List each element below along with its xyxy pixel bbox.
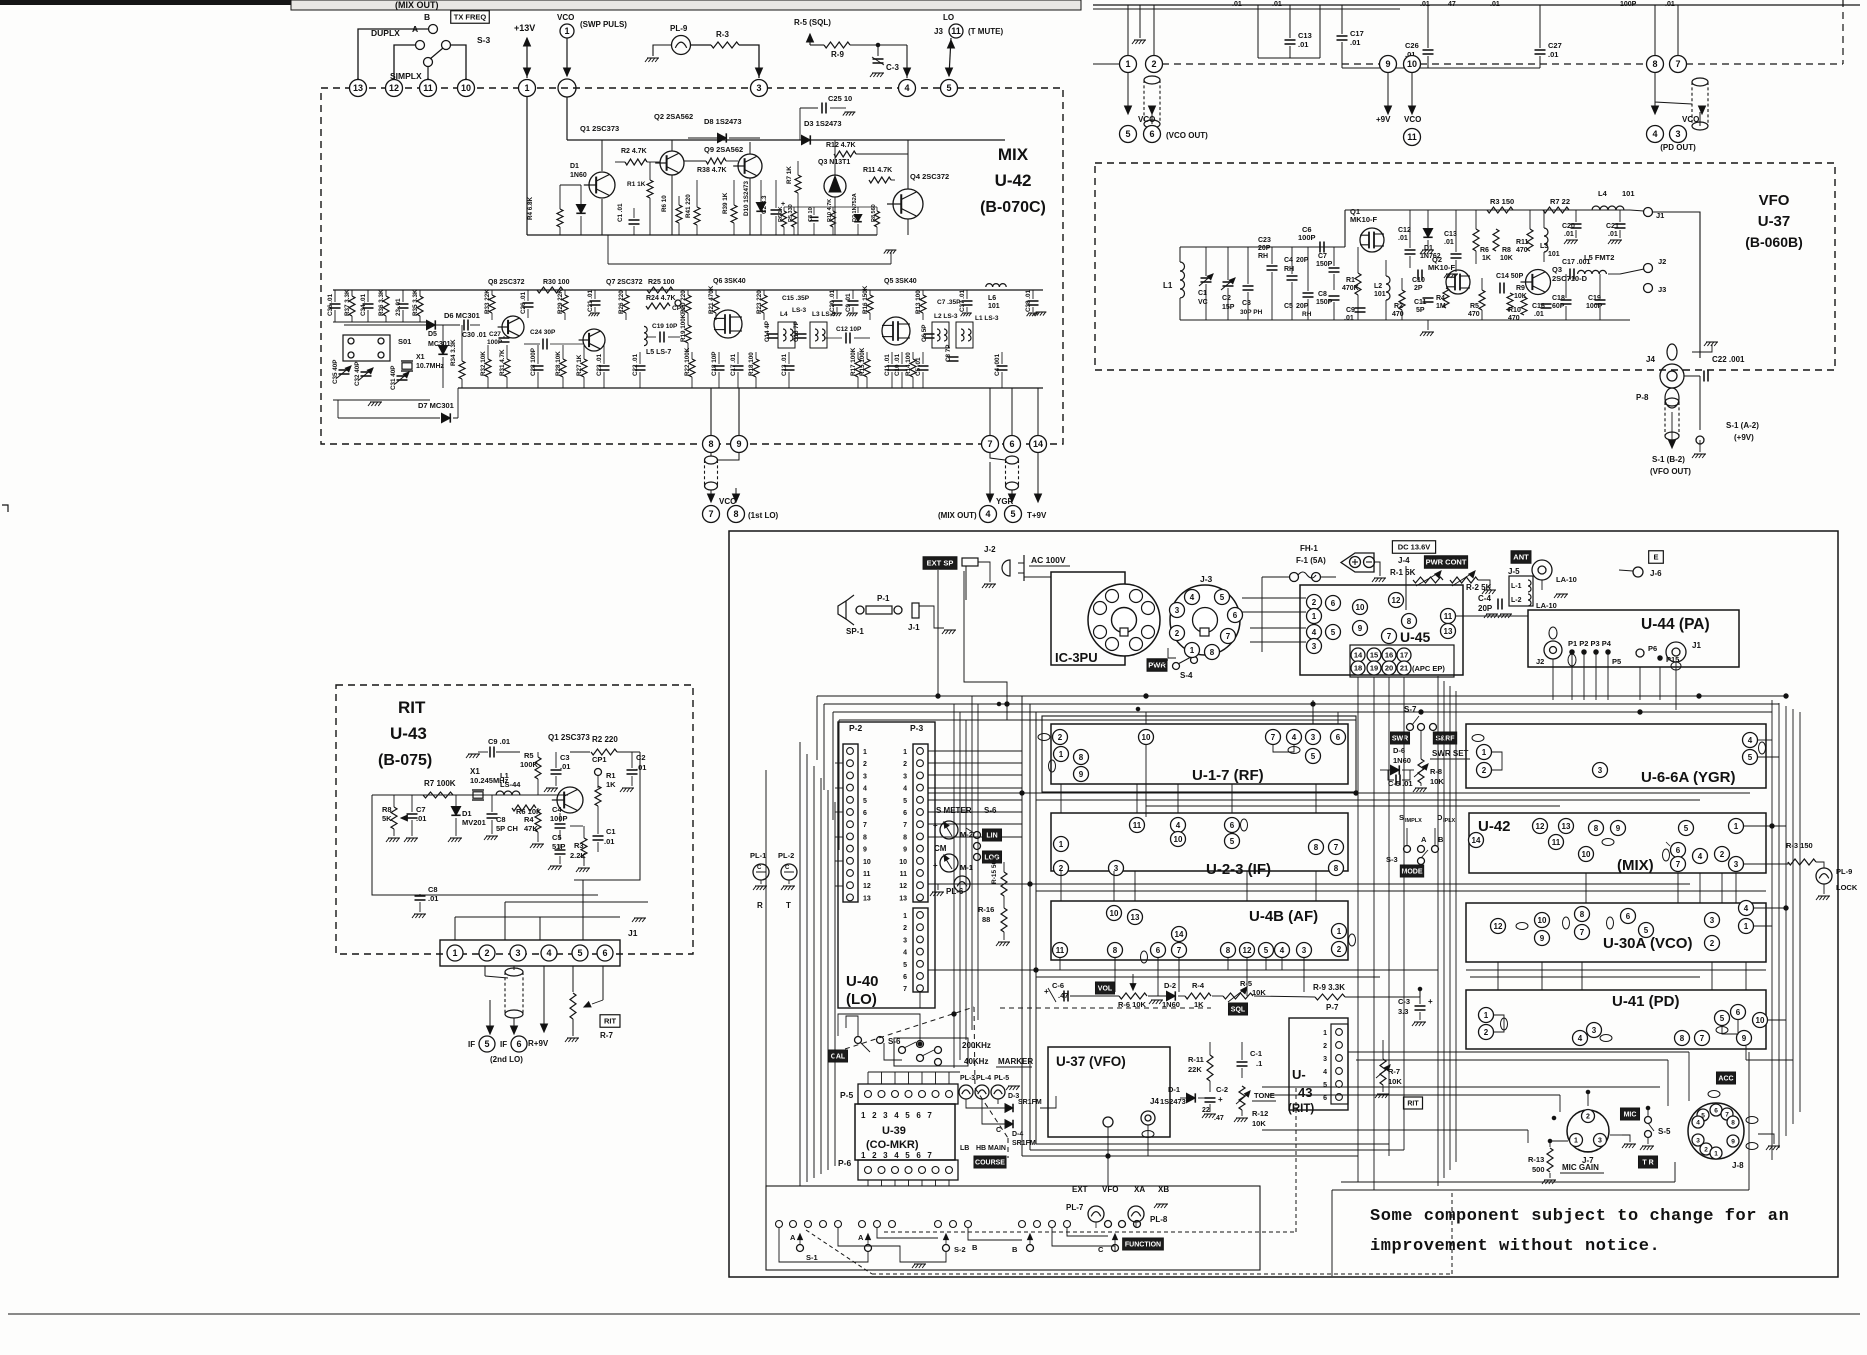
svg-text:5: 5 (903, 798, 907, 805)
pin 12 MIX top (386, 80, 403, 97)
svg-text:.01: .01 (636, 763, 646, 772)
ground VFO bottom (1427, 320, 1429, 330)
svg-text:1: 1 (1190, 646, 1195, 655)
svg-text:PWR CONT: PWR CONT (1426, 558, 1467, 567)
svg-text:(RIT): (RIT) (1288, 1103, 1314, 1115)
svg-text:6: 6 (1336, 733, 1341, 742)
svg-text:2: 2 (1586, 1114, 1590, 1121)
wire pins RF top (1145, 712, 1147, 724)
svg-text:C-1: C-1 (1250, 1049, 1262, 1058)
svg-text:8: 8 (1226, 946, 1231, 955)
wires verticals strip (1127, 5, 1129, 56)
svg-text:R-16: R-16 (978, 905, 994, 914)
svg-text:(MIX OUT): (MIX OUT) (395, 0, 439, 10)
svg-text:VFO: VFO (1102, 1185, 1118, 1194)
svg-text:Q1 2SC373: Q1 2SC373 (580, 124, 619, 133)
svg-text:8: 8 (863, 834, 867, 841)
ground L6 (1036, 311, 1047, 313)
svg-text:.47: .47 (1214, 1115, 1224, 1122)
svg-text:R25 100: R25 100 (648, 279, 675, 286)
svg-text:C16 7P: C16 7P (793, 321, 800, 342)
svg-text:20P: 20P (1478, 604, 1493, 613)
svg-text:11: 11 (951, 26, 961, 36)
svg-text:7: 7 (1387, 632, 1392, 641)
svg-text:J1: J1 (1692, 641, 1701, 650)
svg-text:R-12: R-12 (1252, 1109, 1268, 1118)
svg-text:J4: J4 (1150, 1097, 1159, 1106)
svg-text:5P CH: 5P CH (496, 824, 518, 833)
svg-text:EXT: EXT (1072, 1185, 1088, 1194)
svg-text:10: 10 (1582, 850, 1591, 859)
svg-text:+13V: +13V (514, 23, 535, 33)
svg-text:9: 9 (1731, 1138, 1735, 1145)
capacitor C13 .01 strip (1289, 5, 1291, 38)
wire P-2 stubs left (835, 762, 843, 764)
svg-text:.01: .01 (416, 814, 426, 823)
svg-text:R3 150: R3 150 (1490, 197, 1514, 206)
unit box U-45 (1300, 585, 1463, 675)
shield cable strip left (1144, 76, 1160, 84)
svg-text:9: 9 (1616, 824, 1621, 833)
svg-text:DUPLX: DUPLX (371, 28, 400, 38)
unit box U-37 (VFO) interconnect (1048, 1047, 1170, 1137)
svg-text:10: 10 (899, 859, 907, 866)
svg-text:1: 1 (1125, 59, 1130, 69)
svg-text:U-42: U-42 (995, 171, 1032, 190)
boxed label SQL (1228, 1003, 1247, 1015)
wire S-1 bank links (779, 1228, 868, 1262)
svg-text:S: S (1399, 813, 1404, 822)
svg-text:PL-1: PL-1 (750, 851, 766, 860)
wire pins U-30A to U-41 (1497, 962, 1499, 990)
svg-text:CAL: CAL (831, 1054, 846, 1061)
svg-text:3: 3 (1311, 733, 1316, 742)
svg-text:R27 1K: R27 1K (576, 354, 583, 376)
svg-text:5: 5 (1684, 824, 1689, 833)
pin 11 MIX top (420, 80, 437, 97)
svg-text:11: 11 (1056, 946, 1065, 955)
svg-text:C35 40P: C35 40P (332, 359, 339, 384)
svg-text:11: 11 (863, 871, 871, 878)
svg-text:101: 101 (988, 303, 1000, 310)
svg-text:9: 9 (903, 847, 907, 854)
svg-text:U-41 (PD): U-41 (PD) (1612, 993, 1680, 1010)
wire pins RF to IF (1145, 745, 1147, 817)
svg-text:PL-9: PL-9 (1836, 867, 1852, 876)
svg-text:3: 3 (863, 773, 867, 780)
svg-text:2: 2 (1484, 1028, 1489, 1037)
pins U-41 (1479, 1008, 1494, 1023)
module box MIX U-42 (B-070C) (321, 88, 1063, 444)
svg-text:2: 2 (1337, 945, 1342, 954)
svg-text:5: 5 (1230, 837, 1235, 846)
svg-text:S01: S01 (398, 337, 411, 346)
svg-text:17: 17 (1400, 651, 1408, 660)
svg-text:3: 3 (1598, 1138, 1602, 1145)
ground under trimmers (370, 401, 382, 403)
pins U-45 APC rows (1350, 645, 1454, 677)
svg-text:R-3 150: R-3 150 (1786, 841, 1813, 850)
svg-text:18: 18 (1354, 664, 1362, 673)
svg-text:6: 6 (1736, 1008, 1741, 1017)
svg-text:VCO: VCO (719, 497, 736, 506)
svg-text:R35 3.3K: R35 3.3K (412, 289, 419, 316)
svg-text:1K: 1K (606, 780, 616, 789)
svg-text:L4: L4 (780, 311, 788, 318)
svg-text:R-3: R-3 (716, 30, 729, 39)
svg-text:6: 6 (1156, 946, 1161, 955)
svg-text:8: 8 (1113, 946, 1118, 955)
svg-text:7: 7 (987, 439, 992, 449)
svg-text:XA: XA (1134, 1185, 1145, 1194)
svg-text:RH: RH (1284, 266, 1294, 273)
svg-text:2: 2 (1312, 598, 1317, 607)
svg-text:A: A (412, 24, 418, 34)
svg-text:.01: .01 (428, 894, 438, 903)
unit box U-40 (LO) (838, 722, 935, 1008)
svg-text:C19 10P: C19 10P (652, 323, 678, 330)
svg-text:SQL: SQL (1231, 1007, 1246, 1014)
wire top bus right strip (1093, 4, 1860, 6)
svg-text:U-39: U-39 (882, 1125, 906, 1137)
svg-text:12: 12 (863, 883, 871, 890)
svg-text:PWR: PWR (1148, 661, 1166, 670)
junction node MIX top (558, 79, 576, 97)
svg-text:XB: XB (1158, 1185, 1169, 1194)
boxed label DC 13.6V (1392, 541, 1435, 554)
svg-text:+9V: +9V (1376, 115, 1391, 124)
svg-text:1 2 3 4 5 6 7: 1 2 3 4 5 6 7 (861, 1151, 934, 1160)
svg-text:1: 1 (1484, 1011, 1489, 1020)
svg-text:5: 5 (903, 962, 907, 969)
svg-text:P-3: P-3 (910, 723, 924, 733)
svg-text:RIT: RIT (604, 1017, 617, 1026)
svg-text:AC 100V: AC 100V (1031, 555, 1066, 565)
pins U-42 interconnect (1533, 819, 1548, 834)
svg-text:3: 3 (515, 948, 520, 958)
pin 13 MIX top (350, 80, 367, 97)
svg-text:47: 47 (1448, 1, 1456, 8)
svg-text:C10 .01: C10 .01 (894, 353, 901, 376)
svg-text:470: 470 (1468, 311, 1480, 318)
svg-text:4: 4 (1176, 821, 1181, 830)
svg-text:VCO: VCO (557, 13, 574, 22)
svg-text:R6 10: R6 10 (661, 195, 668, 212)
svg-text:(2nd LO): (2nd LO) (490, 1055, 523, 1064)
svg-text:.01: .01 (1444, 239, 1454, 246)
svg-text:R39 1K: R39 1K (722, 192, 729, 214)
svg-text:4: 4 (904, 83, 909, 93)
svg-text:4: 4 (863, 786, 867, 793)
svg-text:19: 19 (1370, 664, 1378, 673)
svg-text:R7 1K: R7 1K (786, 166, 793, 184)
svg-text:7: 7 (1271, 733, 1276, 742)
boxed label T R (1638, 1156, 1657, 1168)
svg-text:C18 10P: C18 10P (711, 351, 718, 376)
svg-text:1: 1 (1714, 1150, 1718, 1157)
svg-text:U-40: U-40 (846, 973, 879, 990)
svg-text:R-9: R-9 (831, 50, 844, 59)
unit box U-41 (PD) (1466, 990, 1766, 1049)
switch bank B (1019, 1221, 1026, 1228)
svg-text:9: 9 (1540, 934, 1545, 943)
svg-text:10: 10 (1407, 59, 1417, 69)
shield cable MIX bottom left (705, 456, 718, 464)
connector J1 RIT (440, 940, 620, 966)
svg-text:9: 9 (1385, 59, 1390, 69)
svg-text:5P: 5P (1416, 307, 1425, 314)
svg-text:Q6 3SK40: Q6 3SK40 (713, 278, 746, 285)
svg-text:3: 3 (1592, 1026, 1597, 1035)
svg-text:C24 30P: C24 30P (530, 329, 556, 336)
svg-text:4: 4 (1190, 593, 1195, 602)
svg-text:L2 LS-3: L2 LS-3 (934, 313, 958, 320)
wire U-45 to U-44 (1456, 615, 1528, 617)
svg-text:PL-5: PL-5 (994, 1075, 1009, 1082)
svg-text:C5: C5 (1284, 303, 1293, 310)
svg-text:3: 3 (903, 937, 907, 944)
svg-text:7: 7 (1700, 1034, 1705, 1043)
svg-text:1: 1 (524, 83, 529, 93)
svg-text:13: 13 (899, 895, 907, 902)
svg-text:6: 6 (1009, 439, 1014, 449)
svg-text:C8: C8 (496, 815, 506, 824)
svg-text:10: 10 (1174, 835, 1183, 844)
wire P-4 drops (919, 992, 921, 1008)
svg-text:R-15 500: R-15 500 (991, 857, 998, 884)
svg-text:Q9 2SA562: Q9 2SA562 (704, 145, 743, 154)
svg-text:L5 LS-7: L5 LS-7 (646, 349, 671, 356)
svg-text:C3: C3 (1242, 300, 1251, 307)
svg-text:6: 6 (1626, 912, 1631, 921)
svg-text:6: 6 (903, 974, 907, 981)
svg-text:R10: R10 (1508, 307, 1521, 314)
pins U-4B (1107, 906, 1122, 921)
svg-text:7: 7 (1580, 928, 1585, 937)
svg-text:R-13: R-13 (1528, 1155, 1544, 1164)
svg-text:4: 4 (1292, 733, 1297, 742)
svg-text:R5: R5 (1470, 303, 1479, 310)
svg-text:(B-060B): (B-060B) (1745, 234, 1803, 250)
svg-text:C17: C17 (1350, 29, 1364, 38)
boxed label VOL (1095, 982, 1114, 994)
socket IC-3PU octal (1088, 584, 1160, 656)
svg-text:U-2-3 (IF): U-2-3 (IF) (1206, 861, 1271, 878)
svg-text:14: 14 (1472, 836, 1481, 845)
svg-text:Q7 2SC372: Q7 2SC372 (606, 279, 643, 286)
svg-text:6: 6 (516, 1039, 521, 1049)
boxed label COURSE (974, 1156, 1006, 1168)
svg-text:1: 1 (1744, 922, 1749, 931)
svg-text:3: 3 (1675, 129, 1680, 139)
unit box U-30A (VCO) (1466, 903, 1766, 962)
svg-text:C32 40P: C32 40P (354, 361, 361, 386)
svg-text:12: 12 (1243, 946, 1252, 955)
pins MIX bottom (703, 436, 720, 453)
svg-text:MK10-F: MK10-F (1428, 263, 1456, 272)
switch S-2 B (935, 1221, 942, 1228)
wire right bundle verticals (1771, 700, 1773, 1160)
svg-text:LOCK: LOCK (1836, 883, 1858, 892)
svg-text:COURSE: COURSE (975, 1160, 1005, 1167)
svg-text:C25 10: C25 10 (828, 94, 852, 103)
svg-text:10K: 10K (1252, 1119, 1266, 1128)
svg-text:R4: R4 (1436, 295, 1445, 302)
pins U-2-3 (1054, 837, 1069, 852)
svg-text:R8: R8 (1502, 247, 1511, 254)
svg-text:R5: R5 (524, 751, 534, 760)
svg-text:P-2: P-2 (849, 723, 863, 733)
svg-text:C1: C1 (606, 827, 616, 836)
svg-text:10: 10 (1756, 1016, 1765, 1025)
svg-text:PL-7: PL-7 (1066, 1203, 1084, 1212)
svg-text:C4: C4 (552, 805, 562, 814)
svg-text:C22 .01: C22 .01 (632, 353, 639, 376)
svg-text:2: 2 (1323, 1043, 1327, 1050)
svg-text:B: B (424, 12, 430, 22)
svg-text:22: 22 (1202, 1107, 1210, 1114)
wire VFO top bus (1180, 246, 1345, 248)
svg-text:470: 470 (1508, 315, 1520, 322)
svg-text:200KHz: 200KHz (962, 1041, 991, 1050)
svg-text:3: 3 (1312, 642, 1317, 651)
svg-text:13: 13 (1562, 822, 1571, 831)
svg-text:U-37 (VFO): U-37 (VFO) (1056, 1054, 1126, 1069)
svg-text:4: 4 (1698, 852, 1703, 861)
svg-text:14: 14 (1175, 930, 1184, 939)
svg-text:(B-075): (B-075) (378, 752, 432, 769)
svg-text:C5: C5 (552, 833, 562, 842)
svg-text:(MIX): (MIX) (1617, 857, 1654, 874)
svg-text:1: 1 (1482, 748, 1487, 757)
svg-text:13: 13 (1444, 627, 1453, 636)
svg-text:500: 500 (1532, 1165, 1545, 1174)
pot TONE R-12 (1239, 1086, 1245, 1110)
svg-text:L2: L2 (1374, 283, 1382, 290)
svg-text:J3: J3 (934, 27, 943, 36)
svg-text:12: 12 (899, 883, 907, 890)
svg-text:C4 .001: C4 .001 (994, 353, 1001, 376)
svg-text:(B-070C): (B-070C) (980, 199, 1046, 216)
svg-text:R-11: R-11 (1188, 1055, 1204, 1064)
svg-text:40KHz: 40KHz (964, 1057, 988, 1066)
wire pins AF down (1059, 958, 1061, 970)
svg-text:6: 6 (1323, 1095, 1327, 1102)
connector P-4 lower (913, 908, 928, 992)
svg-text:C-3: C-3 (886, 63, 899, 72)
svg-text:RIT: RIT (1407, 1101, 1419, 1108)
svg-text:R33 22K: R33 22K (484, 289, 491, 314)
svg-text:1: 1 (1323, 1030, 1327, 1037)
svg-text:6: 6 (1331, 599, 1336, 608)
svg-text:B: B (972, 1243, 978, 1252)
boxed label FUNCTION (1123, 1238, 1164, 1250)
svg-text:LA-10: LA-10 (1556, 575, 1577, 584)
svg-text:MIC GAIN: MIC GAIN (1562, 1163, 1599, 1172)
wire D6 bus (344, 324, 460, 326)
svg-text:C2 3.3: C2 3.3 (761, 195, 768, 214)
svg-text:R12 4.7K: R12 4.7K (826, 142, 856, 149)
svg-text:3: 3 (1696, 1137, 1700, 1144)
svg-text:D-2: D-2 (1164, 981, 1176, 990)
net +9V VCO strip (1387, 72, 1389, 112)
pins strip (1120, 56, 1137, 73)
switch bank C (1105, 1221, 1112, 1228)
svg-text:C15 .35P: C15 .35P (782, 295, 810, 302)
svg-text:4: 4 (1578, 1034, 1583, 1043)
svg-text:5: 5 (1331, 628, 1336, 637)
svg-text:20: 20 (1385, 664, 1393, 673)
svg-text:5: 5 (1010, 509, 1015, 519)
wire between AF and bottom (928, 969, 1438, 971)
svg-text:8: 8 (1079, 753, 1084, 762)
svg-text:MARKER: MARKER (998, 1057, 1033, 1066)
pins U-30A (1491, 919, 1506, 934)
svg-text:100P: 100P (1298, 233, 1316, 242)
svg-text:R2 220: R2 220 (592, 735, 618, 744)
connector J3 VFO (1644, 284, 1653, 293)
svg-text:U-1-7 (RF): U-1-7 (RF) (1192, 767, 1264, 784)
svg-text:R29 22K: R29 22K (557, 289, 564, 314)
wire bundle left verticals (765, 770, 767, 1186)
svg-text:L1 LS-3: L1 LS-3 (975, 315, 999, 322)
svg-text:VOL: VOL (1098, 986, 1113, 993)
svg-text:8: 8 (1680, 1034, 1685, 1043)
svg-text:1: 1 (1734, 822, 1739, 831)
boxed label EXT SP (923, 557, 957, 570)
svg-text:5: 5 (1748, 753, 1753, 762)
scan artifact faint bottom line (8, 1313, 1860, 1315)
svg-text:J2: J2 (1536, 657, 1544, 666)
svg-text:20P: 20P (1296, 257, 1309, 264)
svg-text:SWR: SWR (1392, 736, 1408, 743)
svg-text:.01: .01 (1398, 235, 1408, 242)
svg-text:R-1 5K: R-1 5K (1390, 568, 1416, 577)
wire AF drops extended (1114, 958, 1116, 992)
svg-text:101: 101 (1548, 251, 1560, 258)
svg-text:8: 8 (1334, 864, 1339, 873)
svg-text:B: B (1012, 1245, 1018, 1254)
label S-1 (B-2) (VFO OUT) (1671, 412, 1673, 446)
wire RIT routing (372, 795, 598, 895)
svg-text:C22 .001: C22 .001 (1712, 355, 1745, 364)
svg-text:C14 50P: C14 50P (1496, 273, 1524, 280)
wire between U-30A and U-41 (1466, 969, 1766, 971)
svg-text:(+9V): (+9V) (1734, 433, 1754, 442)
svg-text:S-1: S-1 (806, 1253, 818, 1262)
svg-text:1: 1 (1059, 840, 1064, 849)
wire U-45 drops to bottom (1357, 677, 1359, 1182)
wire notice area bounds (1341, 1181, 1675, 1183)
svg-text:5: 5 (946, 83, 951, 93)
pins U-1-7 (1053, 730, 1068, 745)
wire between IF and AF (928, 883, 1690, 885)
wire bottom dashed (872, 1273, 1452, 1275)
svg-text:(T MUTE): (T MUTE) (968, 27, 1003, 36)
svg-text:11: 11 (1444, 612, 1453, 621)
pins U-6-6A (1477, 745, 1492, 760)
svg-text:PL-9: PL-9 (670, 24, 688, 33)
svg-text:C8 7P: C8 7P (945, 344, 952, 362)
wire U-41 right pins (1768, 1019, 1786, 1021)
svg-text:+: + (1428, 997, 1433, 1006)
svg-text:R1: R1 (606, 771, 616, 780)
svg-text:(VCO OUT): (VCO OUT) (1166, 131, 1208, 140)
svg-text:3: 3 (1302, 946, 1307, 955)
shield cable strip right (1692, 78, 1708, 86)
wire CAL S-6 links (884, 1043, 902, 1060)
svg-text:D3 1S2473: D3 1S2473 (804, 119, 842, 128)
